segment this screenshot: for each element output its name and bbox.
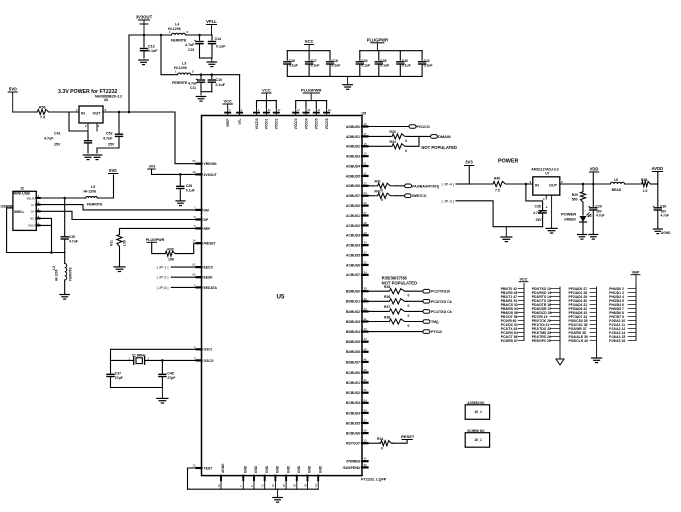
pin 3 D+ bbox=[31, 207, 40, 213]
node PD5/DSR 17 bbox=[532, 307, 560, 311]
capacitor C26 0.1uF bbox=[177, 174, 195, 200]
svg-text:43: 43 bbox=[364, 327, 368, 331]
node PD7/RI 19 bbox=[532, 315, 560, 319]
wire BDBUS2 bbox=[368, 310, 388, 312]
wire cap bank 2 bottom bus bbox=[348, 75, 423, 77]
svg-text:0: 0 bbox=[405, 149, 407, 153]
pin 1 VTL (top) bbox=[237, 108, 243, 125]
svg-text:4.7uF: 4.7uF bbox=[185, 43, 195, 47]
pin 27 ACBUS1 (right) bbox=[346, 211, 367, 218]
svg-text:44: 44 bbox=[364, 337, 368, 341]
svg-text:40: 40 bbox=[364, 307, 368, 311]
pin 15 RSTOUT (right) bbox=[346, 439, 367, 446]
svg-text:25V: 25V bbox=[108, 143, 115, 147]
node VCC flag bbox=[305, 39, 314, 51]
svg-text:7.5: 7.5 bbox=[495, 189, 500, 193]
svg-text:GND: GND bbox=[286, 465, 290, 473]
ground bbox=[578, 235, 587, 240]
pin 17 ADBUS1 (right) bbox=[346, 132, 367, 139]
svg-text:PLUGPWR: PLUGPWR bbox=[301, 88, 322, 93]
svg-text:0.1uF: 0.1uF bbox=[424, 64, 433, 68]
ground bbox=[589, 235, 598, 240]
ground bbox=[592, 341, 602, 363]
svg-text:+: + bbox=[588, 205, 590, 209]
node PG4/ALE 39 bbox=[569, 335, 597, 339]
capacitor C52 4.7uF 25V bbox=[97, 112, 123, 153]
resistor R33 bbox=[390, 130, 408, 143]
svg-text:48: 48 bbox=[364, 368, 368, 372]
svg-text:| JP-6 |: | JP-6 | bbox=[157, 286, 169, 290]
svg-text:C10: C10 bbox=[216, 78, 223, 82]
tag PC1/TXD Ck bbox=[423, 310, 452, 314]
svg-text:ADBUS6: ADBUS6 bbox=[346, 184, 360, 188]
svg-text:| JP-4 |: | JP-4 | bbox=[442, 182, 455, 187]
resistor R56 bbox=[36, 106, 50, 120]
pin 21 ADBUS4 (right) bbox=[346, 162, 367, 169]
svg-text:VTL: VTL bbox=[238, 118, 242, 124]
svg-text:50: 50 bbox=[192, 159, 196, 163]
node PLUGPWR flag bbox=[146, 238, 165, 242]
tag PG1CO bbox=[409, 125, 430, 129]
resistor R38 bbox=[384, 315, 410, 328]
svg-text:0.1uF: 0.1uF bbox=[186, 188, 195, 192]
node PJ2/A2 12 bbox=[609, 327, 636, 331]
regulator U6 bbox=[76, 106, 107, 131]
inductor L2 ferrite bbox=[52, 253, 73, 294]
svg-text:C41: C41 bbox=[54, 132, 61, 136]
pin 32 ACBUS5 (right) bbox=[346, 251, 367, 258]
pin 10 AGND (bottom) bbox=[217, 463, 225, 489]
pin 23 ADBUS6 (right) bbox=[346, 181, 367, 188]
node PG2/WR 37 bbox=[569, 327, 597, 331]
svg-text:BCBUS6: BCBUS6 bbox=[346, 432, 360, 436]
svg-text:DMAIN: DMAIN bbox=[438, 135, 451, 139]
wire 5V0 to R56 bbox=[13, 111, 36, 113]
pin 43 BDBUS4 (right) bbox=[346, 327, 367, 334]
pin 55 BCBUS4 (right) bbox=[346, 408, 367, 415]
pin 47 VCCD3 (top) bbox=[293, 108, 300, 130]
wire ADBUS0 to tag bbox=[368, 126, 410, 128]
node PD4/DTR 16 bbox=[532, 303, 560, 307]
wire R40 to U7 IN bbox=[507, 183, 533, 185]
wire R33 to tag DMAIN bbox=[407, 135, 431, 137]
wire to tag bbox=[407, 321, 423, 323]
svg-text:FERRITE: FERRITE bbox=[87, 203, 103, 207]
node PH0/D0 2 bbox=[609, 287, 636, 291]
svg-text:4.7uF: 4.7uF bbox=[69, 240, 78, 244]
node PB3/R1 51 bbox=[501, 299, 524, 303]
node PB6/DS 56 bbox=[501, 311, 524, 315]
svg-text:ACBUS3: ACBUS3 bbox=[346, 234, 360, 238]
pin 3 VREF (top) bbox=[225, 108, 231, 128]
wire R14 to RESET flag bbox=[393, 440, 407, 444]
wire cap commons bbox=[200, 57, 213, 59]
svg-text:37: 37 bbox=[278, 108, 282, 112]
svg-text:C30: C30 bbox=[660, 205, 666, 209]
jumper JP-3 bbox=[442, 199, 543, 227]
svg-text:R33: R33 bbox=[390, 130, 396, 134]
svg-text:0.1uF: 0.1uF bbox=[289, 64, 298, 68]
svg-text:42: 42 bbox=[268, 108, 272, 112]
node PD1/RXD 13 bbox=[532, 291, 560, 295]
tag /WBTCO bbox=[405, 194, 427, 198]
svg-text:PJ5/A5 16: PJ5/A5 16 bbox=[609, 339, 625, 343]
node PLUGPWR flag bbox=[367, 37, 388, 50]
capacitor C11 4.7uF bbox=[188, 75, 205, 92]
svg-text:25: 25 bbox=[307, 108, 311, 112]
svg-text:ACBUS4: ACBUS4 bbox=[346, 244, 360, 248]
wire PLUGPWR bracket pins 47/25/31/20 bbox=[296, 88, 327, 108]
svg-text:ADBUS0: ADBUS0 bbox=[346, 125, 360, 129]
svg-text:GND: GND bbox=[276, 465, 280, 473]
svg-text:PTX10: PTX10 bbox=[431, 330, 442, 334]
pin 53 BCBUS2 (right) bbox=[346, 388, 367, 395]
svg-text:25V: 25V bbox=[54, 143, 61, 147]
svg-text:55: 55 bbox=[364, 408, 368, 412]
node 3V3OUT flag bbox=[136, 15, 153, 36]
svg-text:24: 24 bbox=[364, 191, 368, 195]
svg-text:DP: DP bbox=[204, 218, 209, 222]
capacitor C40 0.1uF bbox=[397, 51, 411, 77]
svg-text:0: 0 bbox=[408, 314, 410, 318]
wire cap bank 2 top bus bbox=[360, 50, 422, 52]
node PC4/CT 66 bbox=[501, 335, 524, 339]
svg-text:41: 41 bbox=[364, 317, 368, 321]
svg-text:VCCD2: VCCD2 bbox=[275, 118, 279, 129]
svg-text:U6: U6 bbox=[104, 98, 108, 102]
svg-text:REF: REF bbox=[204, 227, 211, 231]
wire D+ to U5 DP bbox=[36, 211, 201, 219]
jumper JP-2 to EESK bbox=[157, 276, 197, 280]
resistor R14 bbox=[377, 437, 393, 450]
svg-text:PG1CO: PG1CO bbox=[417, 125, 430, 129]
node 3V3 flag bbox=[148, 164, 155, 169]
svg-text:C20: C20 bbox=[69, 235, 75, 239]
resistor R42 bbox=[375, 190, 393, 203]
wire cap bank 1 top bus bbox=[287, 50, 330, 52]
svg-text:BCBUS2: BCBUS2 bbox=[346, 391, 360, 395]
tag PC3/TXD Ck bbox=[423, 300, 452, 304]
svg-text:L5: L5 bbox=[91, 185, 95, 189]
wire crystal left node bbox=[111, 359, 134, 361]
ground bbox=[157, 388, 168, 404]
svg-text:C11: C11 bbox=[190, 86, 196, 90]
svg-text:AGND: AGND bbox=[221, 463, 225, 473]
node PF7/AD7 34 bbox=[569, 315, 597, 319]
ground bbox=[273, 489, 283, 502]
svg-text:VCCD4: VCCD4 bbox=[304, 118, 308, 129]
inductor L5 ferrite bbox=[84, 185, 103, 207]
svg-text:10K: 10K bbox=[168, 258, 175, 262]
svg-text:5V0: 5V0 bbox=[9, 87, 18, 92]
node PD0/TXD 12 bbox=[532, 287, 560, 291]
svg-text:GND: GND bbox=[297, 465, 301, 473]
pin 35 GND (bottom) bbox=[293, 465, 301, 489]
node 5V0 input flag bbox=[8, 87, 17, 113]
wire R42 to tag bbox=[393, 195, 404, 197]
pin 54 BCBUS3 (right) bbox=[346, 398, 367, 405]
svg-text:R38: R38 bbox=[384, 315, 390, 319]
svg-text:AGND: AGND bbox=[661, 231, 671, 235]
node PE2/TDO 22 bbox=[532, 327, 560, 331]
svg-text:R36: R36 bbox=[384, 295, 390, 299]
resistor R40 bbox=[491, 177, 507, 193]
svg-text:J2: J2 bbox=[20, 187, 24, 191]
svg-text:C29: C29 bbox=[596, 205, 602, 209]
svg-text:0.1uF: 0.1uF bbox=[361, 64, 370, 68]
node PH4/D4 6 bbox=[609, 303, 636, 307]
svg-text:53: 53 bbox=[364, 388, 368, 392]
wire regulator to rail bbox=[128, 35, 130, 112]
net stack 3 bus bbox=[596, 287, 598, 341]
wire TEST to ground rail bbox=[188, 468, 202, 489]
svg-text:C35: C35 bbox=[380, 59, 386, 63]
svg-text:1.0: 1.0 bbox=[643, 189, 648, 193]
node PJ1/A1 11 bbox=[609, 323, 636, 327]
capacitor C17 0.1uF bbox=[306, 51, 320, 77]
node PF1/AD1 28 bbox=[569, 291, 597, 295]
svg-text:HI-1206: HI-1206 bbox=[84, 190, 97, 194]
capacitor C15 4.7uF bbox=[185, 35, 203, 58]
svg-text:PLUGPWR: PLUGPWR bbox=[367, 37, 388, 42]
svg-text:C17: C17 bbox=[311, 59, 317, 63]
node PB5/RS 54 bbox=[501, 307, 524, 311]
node AVDD flag bbox=[652, 166, 664, 184]
svg-text:BDBUS1: BDBUS1 bbox=[346, 300, 360, 304]
svg-text:+: + bbox=[653, 205, 655, 209]
node PH6/D6 8 bbox=[609, 311, 636, 315]
svg-text:EECS: EECS bbox=[204, 266, 214, 270]
node PF4/AD4 31 bbox=[569, 303, 597, 307]
svg-text:ADBUS3: ADBUS3 bbox=[346, 155, 360, 159]
pin 7 GND (bottom) bbox=[239, 465, 247, 489]
wire BDBUS1 bbox=[368, 300, 388, 302]
node PE3/TMS 23 bbox=[532, 331, 560, 335]
node PB0/T0 42 bbox=[501, 287, 524, 291]
wire BDBUS0 bbox=[368, 290, 388, 292]
wire VREGOUT to 3V3 flag bbox=[152, 169, 197, 174]
svg-text:C16: C16 bbox=[289, 59, 295, 63]
svg-text:FERRITE: FERRITE bbox=[171, 39, 187, 43]
svg-text:FERRITE: FERRITE bbox=[69, 267, 73, 281]
capacitor C35 0.1uF bbox=[375, 51, 389, 77]
svg-text:16_1: 16_1 bbox=[474, 438, 482, 442]
svg-text:MAX8888EZK-3.3: MAX8888EZK-3.3 bbox=[95, 94, 122, 98]
svg-text:R34: R34 bbox=[390, 140, 396, 144]
pin 49 3V3OUT (left) bbox=[192, 170, 217, 177]
wire ADBUS6 bbox=[368, 185, 375, 187]
svg-text:GND: GND bbox=[265, 465, 269, 473]
node PF2/AD2 29 bbox=[569, 295, 597, 299]
svg-text:4.7uF: 4.7uF bbox=[44, 137, 54, 141]
wire cap commons bbox=[201, 91, 212, 93]
svg-text:FERRITE: FERRITE bbox=[172, 81, 188, 85]
svg-text:ACBUS6: ACBUS6 bbox=[346, 263, 360, 267]
resistor R28 1.0 bbox=[641, 178, 652, 193]
svg-text:0.1uF: 0.1uF bbox=[311, 64, 320, 68]
svg-text:R41: R41 bbox=[375, 180, 381, 184]
capacitor C38 4.7uF 25V bbox=[526, 184, 548, 227]
capacitor C18 0.1uF bbox=[327, 51, 341, 77]
svg-text:C42: C42 bbox=[424, 59, 430, 63]
svg-text:VCC: VCC bbox=[519, 278, 527, 282]
pin 30 ACBUS4 (right) bbox=[346, 241, 367, 248]
wire BDBUS3 bbox=[368, 321, 388, 323]
pin 52 BCBUS1 (right) bbox=[346, 378, 367, 385]
ground bbox=[139, 60, 149, 65]
wire ADBUS7 bbox=[368, 195, 375, 197]
ground bbox=[92, 155, 102, 160]
svg-text:28: 28 bbox=[364, 221, 368, 225]
svg-text:20: 20 bbox=[328, 108, 332, 112]
tag PA3/BA/64TXF bbox=[405, 184, 440, 188]
svg-text:SHELL: SHELL bbox=[14, 210, 25, 214]
ground bbox=[83, 155, 93, 160]
pin 42 VCCD1 (top) bbox=[264, 108, 271, 130]
pin 11 GND (bottom) bbox=[261, 465, 269, 489]
svg-text:GND: GND bbox=[254, 465, 258, 473]
node PC5/RS 67 bbox=[501, 339, 524, 343]
pin 13 TEST (left) bbox=[192, 464, 213, 471]
node VCC flag over pin 3 bbox=[223, 99, 232, 108]
svg-text:ACBUS2: ACBUS2 bbox=[346, 224, 360, 228]
svg-text:VREGIN: VREGIN bbox=[204, 162, 218, 166]
svg-text:| JP-1 |: | JP-1 | bbox=[157, 266, 169, 270]
wire JP-4 net to regulator input bbox=[469, 183, 491, 185]
pin 5 GND bbox=[28, 221, 40, 227]
svg-text:BDBUS0: BDBUS0 bbox=[346, 290, 360, 294]
svg-text:14: 14 bbox=[192, 239, 196, 243]
LED D2 POWER GREEN bbox=[561, 211, 592, 234]
capacitor C16 0.1uF bbox=[284, 51, 298, 77]
svg-text:IN: IN bbox=[81, 112, 85, 116]
node PH3/D3 5 bbox=[609, 299, 636, 303]
svg-text:23: 23 bbox=[364, 181, 368, 185]
svg-text:L4: L4 bbox=[175, 23, 179, 27]
svg-text:5V0: 5V0 bbox=[109, 168, 117, 173]
wire L4 to VPLL node bbox=[186, 34, 213, 36]
svg-text:0.1uF: 0.1uF bbox=[380, 64, 389, 68]
svg-text:63: 63 bbox=[192, 273, 196, 277]
svg-text:C40: C40 bbox=[402, 59, 408, 63]
svg-text:OSCO: OSCO bbox=[204, 359, 214, 363]
svg-text:/SUSPEND: /SUSPEND bbox=[343, 466, 361, 470]
svg-text:/PWREN: /PWREN bbox=[346, 460, 360, 464]
svg-text:38: 38 bbox=[364, 287, 368, 291]
node PF3/AD3 30 bbox=[569, 299, 597, 303]
net stack 1 bus bbox=[523, 284, 525, 341]
svg-text:VCCD5: VCCD5 bbox=[315, 118, 319, 129]
regulator U6 part number bbox=[95, 94, 122, 102]
wire to tag bbox=[407, 300, 423, 302]
svg-text:27: 27 bbox=[364, 211, 368, 215]
pin 51 GND (bottom) bbox=[314, 465, 322, 489]
box ASSEM NO bbox=[465, 401, 489, 419]
wire RSTOUT bbox=[368, 442, 380, 444]
resistor R37 bbox=[384, 305, 410, 318]
pin 4 VCCD0 (top) bbox=[254, 108, 260, 130]
pin 25 VCCD4 (top) bbox=[303, 108, 310, 130]
jumper JP-1 to EECS bbox=[157, 266, 197, 270]
capacitor C13 0.1uF bbox=[141, 35, 159, 58]
node RESET flag bbox=[401, 434, 415, 439]
svg-text:52: 52 bbox=[364, 378, 368, 382]
node PG5/CLK 40 bbox=[569, 339, 597, 343]
svg-text:R40: R40 bbox=[494, 177, 500, 181]
node PE5/GP0 25 bbox=[532, 339, 560, 343]
connector J2 MINI-USB bbox=[1, 187, 37, 231]
svg-text:U7: U7 bbox=[545, 172, 549, 176]
svg-text:3V3: 3V3 bbox=[465, 160, 473, 165]
pin 1 EEDATA (left) bbox=[194, 283, 218, 290]
svg-text:TM(): TM() bbox=[431, 320, 439, 324]
ground bbox=[114, 267, 125, 272]
node PD2/RTS 14 bbox=[532, 295, 560, 299]
node PG3/RD 38 bbox=[569, 331, 597, 335]
svg-text:11: 11 bbox=[261, 484, 265, 487]
svg-text:3V3OUT: 3V3OUT bbox=[136, 15, 153, 20]
ground bbox=[556, 341, 564, 366]
svg-text:560: 560 bbox=[572, 197, 578, 201]
svg-text:BDBUS2: BDBUS2 bbox=[346, 310, 360, 314]
svg-text:51: 51 bbox=[314, 483, 318, 487]
svg-text:PC1/TXD Ck: PC1/TXD Ck bbox=[431, 310, 452, 314]
pin 33 ACBUS6 (right) bbox=[346, 260, 367, 267]
node PJ4/A4 15 bbox=[609, 335, 636, 339]
node VCC flag bbox=[519, 278, 528, 282]
svg-text:EESK: EESK bbox=[204, 276, 214, 280]
node PE4/TRS 24 bbox=[532, 335, 560, 339]
svg-text:0: 0 bbox=[381, 188, 383, 192]
svg-text:D+: D+ bbox=[31, 210, 35, 214]
svg-text:C18: C18 bbox=[332, 59, 338, 63]
svg-text:3V3: 3V3 bbox=[149, 164, 155, 168]
svg-text:D-: D- bbox=[31, 203, 34, 207]
node PJ0/A0 10 bbox=[609, 319, 636, 323]
svg-text:VCCD1: VCCD1 bbox=[265, 118, 269, 129]
tag PTX10 bbox=[423, 330, 442, 334]
svg-text:VPLL: VPLL bbox=[206, 19, 217, 24]
tag TM() bbox=[423, 320, 439, 324]
resistor R34 not populated bbox=[390, 140, 408, 153]
svg-text:C15: C15 bbox=[188, 48, 194, 52]
node PJ5/A5 16 bbox=[609, 339, 636, 343]
capacitor C41 4.7uF 25V bbox=[44, 112, 92, 153]
node PF5/AD5 32 bbox=[569, 307, 597, 311]
wire U6 OUT 3.3V rail bbox=[103, 111, 175, 113]
pin 16 ADBUS0 (right) bbox=[346, 122, 367, 129]
wire OSCO bbox=[145, 359, 197, 361]
svg-text:C52: C52 bbox=[106, 132, 113, 136]
svg-text:0: 0 bbox=[408, 294, 410, 298]
ground bbox=[501, 227, 512, 242]
svg-text:1.5K: 1.5K bbox=[123, 239, 127, 246]
node PF0/AD0 27 bbox=[569, 287, 597, 291]
svg-text:47: 47 bbox=[297, 108, 301, 112]
svg-text:PLUGPWR: PLUGPWR bbox=[146, 238, 165, 242]
pin 14 /RESET (left) bbox=[192, 239, 216, 246]
pin 3 OSCO (left) bbox=[194, 356, 214, 363]
svg-text:GREEN: GREEN bbox=[564, 218, 576, 222]
regulator U7 part number bbox=[531, 167, 558, 175]
node VDD flag bbox=[589, 167, 598, 185]
wire cap bank 1 bottom bus bbox=[287, 75, 347, 77]
svg-text:ACBUS7: ACBUS7 bbox=[346, 273, 360, 277]
pin 24 ADBUS7 (right) bbox=[346, 191, 367, 198]
svg-text:R37: R37 bbox=[384, 305, 390, 309]
svg-text:BDBUS4: BDBUS4 bbox=[346, 330, 360, 334]
pin 31 VCCD5 (top) bbox=[314, 108, 321, 130]
